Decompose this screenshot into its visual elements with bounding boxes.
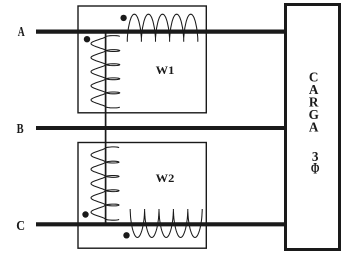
svg-text:W1: W1 <box>156 63 175 77</box>
svg-text:Φ: Φ <box>311 161 320 178</box>
svg-text:A: A <box>309 120 319 135</box>
svg-text:A: A <box>18 25 26 40</box>
svg-text:W2: W2 <box>156 171 175 185</box>
svg-text:C: C <box>16 219 25 234</box>
svg-text:B: B <box>17 122 24 137</box>
